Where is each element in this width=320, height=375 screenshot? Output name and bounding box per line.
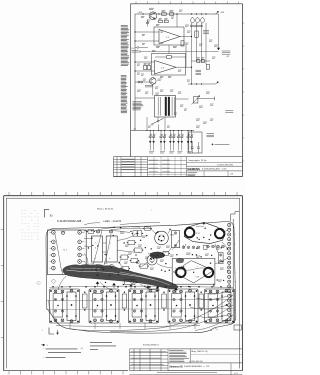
svg-text:+15V: +15V (138, 12, 143, 14)
svg-text:S44135-W9302-V: S44135-W9302-V (143, 344, 160, 346)
svg-text:↓: ↓ (110, 247, 111, 250)
svg-text:Leitpl. - Ansicht: Leitpl. - Ansicht (104, 219, 122, 223)
svg-text:13: 13 (235, 281, 237, 283)
svg-text:V102: V102 (170, 235, 174, 237)
svg-text:×: × (197, 265, 198, 268)
svg-text:C 1: C 1 (166, 37, 169, 39)
svg-text:V 54: V 54 (196, 277, 200, 279)
svg-text:o. 14/90 4064 100,: o. 14/90 4064 100, (189, 361, 204, 363)
svg-text:1: 1 (175, 308, 176, 310)
svg-text:-03: -03 (81, 348, 83, 350)
svg-text:3: 3 (95, 248, 96, 250)
svg-text:11: 11 (235, 272, 237, 274)
svg-text:C 2: C 2 (161, 68, 164, 70)
svg-text:V 51: V 51 (196, 233, 200, 235)
svg-text:1: 1 (57, 308, 58, 310)
svg-text:Ausg. .NW1. R - Bj: Ausg. .NW1. R - Bj (192, 350, 208, 353)
svg-text:1: 1 (110, 243, 111, 245)
svg-text:Rück s. M 10:10: Rück s. M 10:10 (97, 208, 114, 210)
svg-text:S-44135-W9302-A59 · a · 742: S-44135-W9302-A59 · a · 742 (184, 365, 209, 368)
svg-text:· 470: · 470 (226, 56, 230, 58)
svg-text:1: 1 (96, 308, 97, 310)
svg-text:Längsregler, 15 Vp: Längsregler, 15 Vp (188, 159, 207, 162)
svg-text:S 44135-A9101-A101 · a 742: S 44135-A9101-A101 · a 742 (202, 168, 227, 171)
svg-text:Siemens AG: Siemens AG (169, 365, 183, 368)
svg-text:· L: · L (41, 330, 43, 332)
svg-text:≈40: ≈40 (133, 129, 136, 131)
svg-text:S 44135-W9302-A88 -: S 44135-W9302-A88 - (57, 219, 83, 223)
svg-text:SIEMENS: SIEMENS (187, 167, 200, 171)
